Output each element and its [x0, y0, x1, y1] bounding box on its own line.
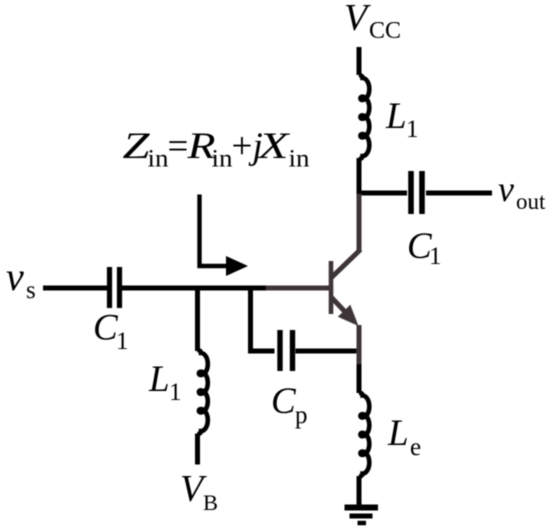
svg-text:L: L: [385, 96, 407, 137]
svg-text:CC: CC: [369, 18, 401, 44]
svg-text:e: e: [410, 434, 421, 461]
svg-text:1: 1: [406, 116, 419, 143]
svg-text:C: C: [271, 381, 297, 422]
svg-text:v: v: [498, 169, 514, 209]
svg-text:1: 1: [116, 328, 129, 355]
svg-text:1: 1: [429, 243, 442, 270]
svg-text:in: in: [148, 146, 170, 173]
svg-text:V: V: [344, 0, 371, 39]
svg-text:Z: Z: [123, 126, 151, 167]
svg-text:L: L: [148, 359, 170, 400]
svg-text:p: p: [295, 402, 308, 429]
svg-text:1: 1: [169, 379, 182, 406]
svg-text:out: out: [516, 189, 546, 214]
svg-text:v: v: [6, 254, 24, 299]
svg-text:B: B: [203, 490, 218, 515]
svg-text:=: =: [168, 126, 189, 167]
svg-text:+: +: [232, 126, 253, 167]
svg-text:X: X: [256, 126, 290, 167]
svg-text:L: L: [387, 413, 409, 454]
svg-text:s: s: [26, 277, 36, 304]
svg-text:in: in: [289, 146, 311, 173]
svg-text:in: in: [212, 146, 234, 173]
